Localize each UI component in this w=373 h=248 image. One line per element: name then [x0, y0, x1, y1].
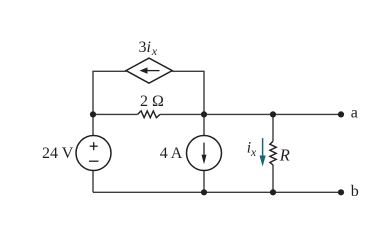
current source I1 4A [187, 136, 222, 171]
svg-text:R: R [279, 145, 290, 164]
svg-text:24 V: 24 V [42, 145, 74, 162]
dependent current source U1 (diamond 3ix) [126, 58, 172, 83]
wire right vertical [272, 114, 274, 192]
node dot mid-bottom [201, 189, 207, 195]
wire middle horizontal [93, 113, 341, 115]
svg-text:2 Ω: 2 Ω [140, 93, 164, 110]
svg-text:3ix: 3ix [139, 39, 158, 58]
node dot R-bottom [270, 189, 276, 195]
node dot mid-top [201, 111, 207, 117]
wire left vertical [92, 114, 94, 192]
wire middle vertical [203, 114, 205, 192]
node a terminal [338, 111, 344, 117]
node dot left-mid [90, 111, 96, 117]
svg-text:4 A: 4 A [160, 145, 183, 162]
svg-text:ix: ix [247, 139, 257, 158]
resistor 2ohm [138, 111, 160, 118]
voltage source V1 24V [76, 136, 111, 171]
svg-text:b: b [351, 183, 359, 200]
current arrow ix [260, 138, 266, 166]
resistor R [270, 141, 276, 165]
wire bottom horizontal [93, 191, 341, 193]
node b terminal [338, 189, 344, 195]
node dot R-top [270, 111, 276, 117]
svg-text:a: a [351, 105, 358, 122]
wire top branch [93, 71, 204, 114]
